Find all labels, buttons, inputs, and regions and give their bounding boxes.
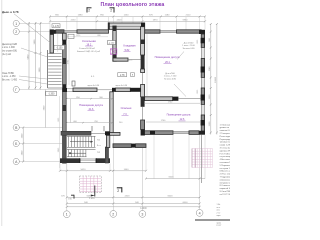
svg-text:по серии 1.0: по серии 1.0 xyxy=(220,168,230,170)
svg-text:Sк окна 0.80: Sк окна 0.80 xyxy=(164,78,177,80)
stair room top wall xyxy=(61,126,110,135)
top bump wall xyxy=(108,22,145,29)
left dim chains top xyxy=(28,22,30,90)
svg-text:4: 4 xyxy=(199,211,201,215)
svg-text:1: 1 xyxy=(66,213,68,217)
svg-text:1 окна -7.100: 1 окна -7.100 xyxy=(164,76,177,78)
right dim chain 1 xyxy=(210,24,212,135)
svg-text:по ГОСТ 30: по ГОСТ 30 xyxy=(220,194,230,196)
bottom extension lines xyxy=(60,135,205,179)
svg-text:(по строит.БК): (по строит.БК) xyxy=(2,51,17,53)
mini flag bottom-left xyxy=(71,195,74,199)
svg-text:2400: 2400 xyxy=(117,20,123,22)
svg-text:1.170: 1.170 xyxy=(53,26,59,28)
stair arrow xyxy=(69,141,93,154)
TR room note text upper xyxy=(182,42,195,50)
shel texts above P1 xyxy=(88,84,128,87)
axis circles left xyxy=(13,20,19,164)
svg-text:Помещение досуга: Помещение досуга xyxy=(155,55,180,59)
dim ticks top row A xyxy=(49,16,206,23)
svg-text:ГОСТ: ГОСТ xyxy=(217,225,223,226)
svg-text:7 Гидроизол: 7 Гидроизол xyxy=(220,177,230,179)
left outer wall top part xyxy=(50,30,54,53)
stair bay retaining wall xyxy=(47,50,49,88)
bottom wall xyxy=(60,158,110,163)
partition P2 xyxy=(145,97,202,101)
svg-text:Sк окна 0.80: Sк окна 0.80 xyxy=(183,48,196,50)
top-left wall xyxy=(50,30,109,34)
svg-text:типовые по: типовые по xyxy=(220,142,230,144)
paving grid bottom-right xyxy=(192,149,213,168)
frame line bottom right xyxy=(195,219,230,221)
kladovaya bottom wall xyxy=(113,58,141,61)
svg-text:2: 2 xyxy=(110,8,112,12)
internal stair flight 1 treads xyxy=(67,136,96,149)
svg-text:-1.150: -1.150 xyxy=(56,48,63,50)
svg-text:2.010: 2.010 xyxy=(89,198,95,200)
right wall xyxy=(201,34,205,131)
svg-text:2400: 2400 xyxy=(125,195,131,197)
svg-text:1260: 1260 xyxy=(124,15,130,17)
svg-text:6600: 6600 xyxy=(168,195,174,197)
TR leaders xyxy=(177,52,184,60)
bottom right corner marks xyxy=(217,204,221,217)
svg-text:шириной 10: шириной 10 xyxy=(220,187,230,190)
svg-text:о.отм. -1.350: о.отм. -1.350 xyxy=(2,76,16,78)
partition P4 xyxy=(110,92,113,133)
svg-text:2: 2 xyxy=(117,189,119,193)
right dim ticks + labels xyxy=(210,23,218,134)
svg-text:Дно п/500: Дно п/500 xyxy=(184,42,194,44)
bottom section flag xyxy=(117,187,122,192)
svg-text:(2+1) м2: (2+1) м2 xyxy=(2,54,12,56)
svg-text:План цокольного этажа: План цокольного этажа xyxy=(101,2,165,8)
scan edge line xyxy=(1,0,3,226)
stair room right wall xyxy=(105,147,108,163)
left note block A xyxy=(2,44,17,56)
svg-text:на растворе: на растворе xyxy=(220,156,230,158)
svg-text:2: 2 xyxy=(88,8,90,12)
svg-text:1: 1 xyxy=(15,22,17,26)
svg-text:сечением 1: сечением 1 xyxy=(220,162,230,164)
left dim ticks + labels xyxy=(22,23,41,163)
TR inner dim line xyxy=(146,34,148,96)
dim labels top xyxy=(55,15,191,22)
svg-text:1180: 1180 xyxy=(165,15,170,17)
svg-text:5620: 5620 xyxy=(81,169,87,171)
svg-text:Дымоход=4кВ: Дымоход=4кВ xyxy=(2,44,17,46)
svg-text:ГОСТ 530-9: ГОСТ 530-9 xyxy=(220,153,230,155)
svg-text:2 Ст: 2 Ст xyxy=(217,212,221,214)
boiler room S text xyxy=(77,48,101,53)
internal stair flight 2 treads xyxy=(67,150,87,157)
svg-text:Полы подва: Полы подва xyxy=(220,136,230,138)
main left wall xyxy=(62,33,66,131)
svg-text:д.140: д.140 xyxy=(109,43,115,45)
svg-text:-1.350: -1.350 xyxy=(48,94,55,96)
porch dashed grid xyxy=(80,176,102,193)
boiler equipment rect xyxy=(68,34,74,38)
svg-text:1380: 1380 xyxy=(78,15,84,17)
svg-text:10300: 10300 xyxy=(215,76,217,83)
svg-text:Г: Г xyxy=(15,88,17,92)
bottom dim row 1 xyxy=(60,170,146,172)
top dim row B xyxy=(50,20,205,22)
svg-text:1 Вс: 1 Вс xyxy=(217,204,221,206)
svg-text:щель 4×0.56: щель 4×0.56 xyxy=(116,84,128,87)
svg-text:2: 2 xyxy=(112,212,114,216)
external stair treads xyxy=(48,54,61,85)
svg-text:2.78 м. отм: 2.78 м. отм xyxy=(220,174,230,176)
svg-text:1870: 1870 xyxy=(153,20,159,22)
svg-text:5960: 5960 xyxy=(183,20,189,22)
left note block B xyxy=(2,73,18,82)
step wall xyxy=(113,144,146,148)
svg-text:1 окна -7.100: 1 окна -7.100 xyxy=(182,45,195,47)
outside-left vertical dim near stair room xyxy=(59,96,61,168)
svg-text:2110: 2110 xyxy=(186,15,191,17)
stair room left wall xyxy=(63,131,67,163)
svg-text:1 Обозначен: 1 Обозначен xyxy=(220,124,230,126)
svg-text:Перегородк: Перегородк xyxy=(220,139,230,141)
svg-text:Помещение досуга: Помещение досуга xyxy=(79,103,103,107)
svg-text:кирпича КР: кирпича КР xyxy=(220,150,230,152)
svg-text:2 Толщина с: 2 Толщина с xyxy=(220,133,230,135)
svg-text:серии 1.230: серии 1.230 xyxy=(220,145,230,147)
svg-text:битумом за: битумом за xyxy=(220,182,230,184)
svg-text:Кладовая: Кладовая xyxy=(123,44,136,48)
svg-text:Спальня: Спальня xyxy=(121,106,132,110)
svg-text:14000: 14000 xyxy=(140,208,147,210)
top dim row A xyxy=(50,16,205,18)
svg-text:6600: 6600 xyxy=(183,202,189,204)
bottom total row xyxy=(67,203,200,205)
svg-text:3: 3 xyxy=(141,212,143,216)
svg-text:Окна Н=ВС: Окна Н=ВС xyxy=(2,73,14,75)
svg-text:2.78: 2.78 xyxy=(120,75,125,77)
svg-text:3 ст: 3 ст xyxy=(97,145,101,147)
svg-text:2: 2 xyxy=(15,30,17,34)
svg-text:щель 4×0.56: щель 4×0.56 xyxy=(88,84,100,87)
svg-text:и отм. 1.900: и отм. 1.900 xyxy=(2,47,16,49)
svg-text:1440: 1440 xyxy=(124,169,130,171)
axis 4 line through grid xyxy=(201,135,203,184)
svg-text:по п: по п xyxy=(217,207,221,209)
svg-text:6 Высота эт: 6 Высота эт xyxy=(220,171,230,173)
svg-text:4.1.: 4.1. xyxy=(91,76,95,78)
vertical wall axis3 xyxy=(141,27,145,136)
axis circles bottom xyxy=(63,210,203,218)
small vertical dim inside boiler room left xyxy=(57,34,59,52)
boiler room inner vertical dim xyxy=(68,40,70,85)
svg-text:кирп: кирп xyxy=(217,215,221,217)
svg-text:9 Окна ПВХ: 9 Окна ПВХ xyxy=(220,191,230,193)
svg-text:Sокон=2.04(1.02+1) м2: Sокон=2.04(1.02+1) м2 xyxy=(77,51,101,53)
svg-text:уровня по: уровня по xyxy=(220,127,230,129)
bottom-right wall xyxy=(143,131,205,135)
svg-text:отметке 0.0: отметке 0.0 xyxy=(220,130,230,132)
svg-text:Помещение досуга: Помещение досуга xyxy=(167,113,191,117)
svg-text:Дым. н 0.78: Дым. н 0.78 xyxy=(2,10,19,14)
svg-text:S пол=18.36 м2: S пол=18.36 м2 xyxy=(79,48,96,50)
door tick in boiler room xyxy=(72,81,75,86)
boiler room top dim xyxy=(67,36,108,38)
jog walls xyxy=(106,132,120,148)
flue box xyxy=(108,41,116,45)
stair room tiny marks xyxy=(97,140,101,155)
svg-text:2250: 2250 xyxy=(71,20,77,22)
bottom dim row 2 xyxy=(67,196,200,198)
bottom dim ticks + labels xyxy=(59,170,201,208)
porch arrow xyxy=(94,186,96,197)
right dim chain 2 xyxy=(216,24,218,135)
svg-text:Дно п/500: Дно п/500 xyxy=(165,73,175,75)
partition P1 xyxy=(62,88,140,92)
svg-text:обмазочная: обмазочная xyxy=(220,179,230,181)
svg-text:3 Стены выр: 3 Стены выр xyxy=(220,148,230,150)
left dim chain lower xyxy=(22,128,24,162)
svg-text:вент.: вент. xyxy=(128,59,133,61)
svg-text:8 Отмостка: 8 Отмостка xyxy=(220,185,230,187)
TR room note text lower xyxy=(164,73,177,81)
svg-text:Котельная: Котельная xyxy=(82,39,96,43)
svg-text:4 Вентканал: 4 Вентканал xyxy=(220,159,230,161)
dim extension lines top xyxy=(50,17,205,30)
svg-text:5 Перемычк: 5 Перемычк xyxy=(220,165,230,167)
svg-text:Вн.отм. -1.450: Вн.отм. -1.450 xyxy=(2,80,18,82)
top-right wall xyxy=(145,30,205,34)
kladovaya left wall xyxy=(113,26,116,61)
vent shaft magenta symbol xyxy=(110,49,117,55)
svg-text:6600: 6600 xyxy=(169,177,175,179)
